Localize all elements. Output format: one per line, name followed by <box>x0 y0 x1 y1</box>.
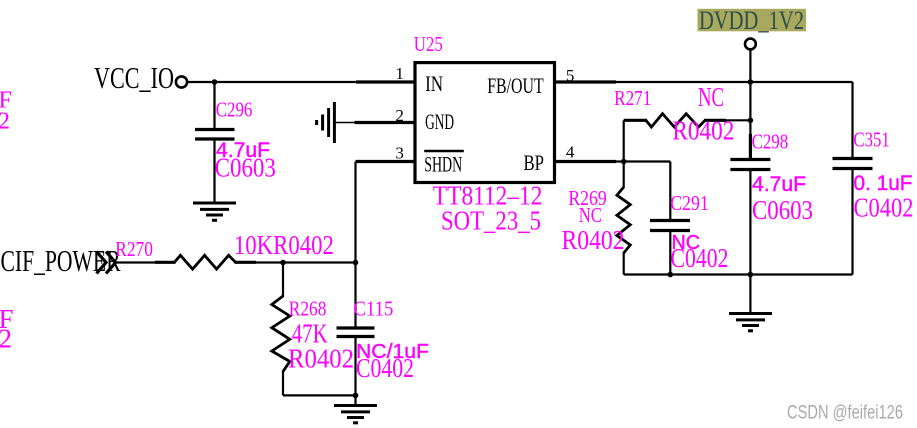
junction ground bus at C298 <box>748 272 754 278</box>
wire R268 bottom lead <box>282 371 284 396</box>
wire R271 left lead <box>624 119 647 122</box>
wire pin 3 down to CIF net <box>354 162 356 263</box>
wire DVDD terminal down to C298 <box>749 50 751 159</box>
wire C115 bottom lead <box>354 337 356 406</box>
wire C296 to ground <box>213 139 215 203</box>
terminal circle VCC_IO <box>176 76 187 87</box>
svg-text:C351: C351 <box>853 128 889 152</box>
wire R268 top lead <box>282 263 284 298</box>
svg-text:C115: C115 <box>353 296 393 320</box>
svg-text:10KR0402: 10KR0402 <box>234 230 334 260</box>
capacitor C296 <box>195 130 235 140</box>
ground symbol at U25 pin 2 (sideways) <box>317 102 335 143</box>
wire C115 top lead <box>354 263 356 327</box>
wire C298 bottom lead <box>749 170 751 275</box>
wire ground bus to ground symbol <box>749 275 751 314</box>
wire C291 bottom lead <box>669 231 671 275</box>
junction C115 tap <box>353 260 359 266</box>
svg-text:GND: GND <box>425 109 454 134</box>
wire junction to C296 <box>213 82 215 128</box>
wire CIF_POWER to R270 <box>116 261 157 263</box>
svg-text:C296: C296 <box>216 98 253 122</box>
port symbol chevrons CIF_POWER <box>97 252 116 274</box>
junction R271 right lead <box>748 118 754 124</box>
svg-text:C0402: C0402 <box>854 193 914 223</box>
wire ground to pin 2 <box>336 122 357 124</box>
capacitor C298 <box>730 160 770 170</box>
wire R270 left lead <box>155 261 176 264</box>
svg-text:R268: R268 <box>289 296 327 320</box>
svg-text:SOT_23_5: SOT_23_5 <box>441 206 541 236</box>
wire FB/OUT net to C351 <box>615 81 853 83</box>
terminal circle DVDD_1V2 <box>745 39 756 50</box>
ground symbol under C296 <box>193 203 236 220</box>
wire R271 lead to DVDD column <box>725 119 750 121</box>
wire R270 to pin3 column <box>255 261 356 263</box>
wire BP net to C291 corner <box>615 160 670 162</box>
wire VCC_IO to pin 1 <box>188 81 358 83</box>
wire C351 bottom lead <box>851 169 853 275</box>
wire C291 corner down <box>669 162 671 220</box>
capacitor C291 <box>650 221 690 231</box>
junction BP net at R269 <box>621 159 627 165</box>
wire R269 top lead <box>623 162 625 189</box>
wire R270 right lead <box>235 261 257 264</box>
junction bottom bus at C115 <box>353 393 359 399</box>
svg-text:C0402: C0402 <box>671 243 729 273</box>
svg-text:02: 02 <box>0 324 12 354</box>
svg-text:FB/OUT: FB/OUT <box>487 73 544 98</box>
svg-text:BP: BP <box>524 150 545 175</box>
svg-text:4: 4 <box>566 143 575 162</box>
IC U25 body <box>415 63 555 183</box>
svg-text:C0603: C0603 <box>215 153 276 183</box>
wire R271 left lead down to BP net <box>623 120 625 161</box>
svg-text:NC: NC <box>579 203 602 227</box>
capacitor C351 <box>833 159 873 169</box>
svg-text:R0402: R0402 <box>288 344 354 374</box>
power port DVDD_1V2 <box>698 6 807 35</box>
junction C291 bottom at ground bus <box>668 272 674 278</box>
pin 3 stub of U25 <box>356 160 416 163</box>
pin 1 stub of U25 <box>356 80 415 83</box>
svg-text:VCC_IO: VCC_IO <box>94 60 174 95</box>
svg-text:R271: R271 <box>614 86 651 110</box>
ground bus wire <box>624 273 853 275</box>
svg-text:2: 2 <box>395 106 404 125</box>
svg-text:C0603: C0603 <box>752 195 813 225</box>
svg-text:NC: NC <box>698 82 724 112</box>
svg-text:IN: IN <box>425 71 443 96</box>
resistor R268 <box>272 296 290 372</box>
svg-text:R0402: R0402 <box>672 115 734 145</box>
wire R271 right lead <box>704 119 726 122</box>
svg-text:U25: U25 <box>414 32 443 56</box>
svg-text:1: 1 <box>395 64 404 83</box>
svg-text:R0402: R0402 <box>562 225 625 255</box>
pin 4 stub of U25 <box>555 160 617 163</box>
svg-text:4.7uF: 4.7uF <box>752 173 806 196</box>
pin 2 stub of U25 <box>355 121 416 124</box>
ground symbol under C298 <box>729 314 772 331</box>
wire R268 to C115 bottom bus <box>283 394 356 396</box>
svg-text:CSDN @feifei126: CSDN @feifei126 <box>787 403 903 424</box>
svg-text:3: 3 <box>395 144 404 163</box>
ground symbol under C115 <box>334 406 377 423</box>
resistor R269 <box>617 187 630 253</box>
svg-text:R270: R270 <box>115 237 153 261</box>
overline of SHDN <box>424 150 464 152</box>
resistor R270 <box>174 255 235 269</box>
capacitor C115 <box>337 328 375 337</box>
pin 5 stub of U25 <box>555 80 617 83</box>
svg-text:SHDN: SHDN <box>424 152 462 177</box>
junction at C296 tap <box>212 79 218 85</box>
svg-text:C291: C291 <box>670 191 709 215</box>
junction R268 tap <box>280 260 286 266</box>
wire DVDD column to C298 top <box>749 134 752 158</box>
wire C351 top lead <box>851 82 853 158</box>
svg-text:02: 02 <box>0 109 10 135</box>
wire R269 bottom lead <box>623 252 625 275</box>
svg-text:DVDD_1V2: DVDD_1V2 <box>699 6 804 35</box>
svg-text:C0402: C0402 <box>356 353 414 383</box>
svg-text:C298: C298 <box>752 130 789 154</box>
junction FB/OUT at DVDD column <box>748 79 754 85</box>
resistor R271 <box>646 114 705 127</box>
